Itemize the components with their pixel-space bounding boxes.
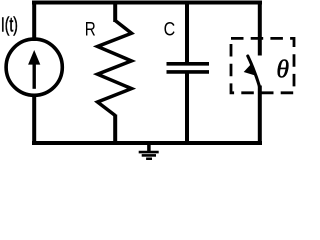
current source arrow shaft (33, 61, 36, 89)
wire switch branch top stub (258, 1, 262, 56)
wire resistor top stub (113, 1, 117, 23)
wire capacitor bottom stub (185, 72, 189, 143)
svg-text:R: R (85, 20, 96, 41)
capacitor C top plate (167, 62, 210, 66)
svg-text:C: C (164, 19, 176, 41)
resistor R zigzag (98, 21, 132, 116)
current source arrowhead (28, 50, 40, 65)
ground bar 2 (142, 154, 156, 157)
wire resistor bottom stub (113, 115, 117, 144)
wire left branch top (rail to current source) (32, 3, 36, 42)
switch blade (248, 56, 260, 88)
switch blade arrowhead (244, 64, 255, 75)
ground bar 1 (139, 151, 159, 154)
wire left branch bottom (current source to rail) (32, 94, 36, 144)
svg-text:θ: θ (276, 55, 289, 84)
wire top rail (32, 1, 262, 5)
wire bottom rail (32, 141, 262, 145)
capacitor C bottom plate (167, 70, 210, 74)
wire switch branch bottom stub (258, 86, 262, 144)
wire capacitor top stub (185, 1, 189, 64)
dashed threshold box (231, 38, 294, 92)
wire ground stub (147, 141, 151, 152)
current source I1 circle (6, 39, 62, 95)
ground bar 3 (146, 158, 152, 161)
svg-text:I(t): I(t) (1, 13, 18, 36)
